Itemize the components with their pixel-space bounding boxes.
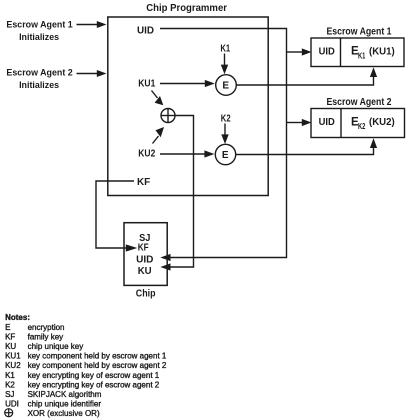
svg-text:UDI: UDI <box>5 399 19 408</box>
svg-text:UID: UID <box>137 26 154 37</box>
svg-text:key component held by escrow a: key component held by escrow agent 2 <box>28 361 167 370</box>
svg-text:Chip: Chip <box>136 289 156 300</box>
svg-text:KU2: KU2 <box>5 361 21 370</box>
svg-text:SJ: SJ <box>5 390 14 399</box>
svg-text:XOR (exclusive OR): XOR (exclusive OR) <box>28 409 100 418</box>
svg-text:E: E <box>222 81 229 92</box>
svg-text:Escrow Agent 2: Escrow Agent 2 <box>327 97 392 108</box>
svg-text:Initializes: Initializes <box>19 80 59 90</box>
svg-text:SKIPJACK algorithm: SKIPJACK algorithm <box>28 390 102 399</box>
svg-text:key encrypting key of escrow a: key encrypting key of escrow agent 2 <box>28 380 160 389</box>
svg-text:Escrow Agent 2: Escrow Agent 2 <box>6 67 72 77</box>
svg-text:KU1: KU1 <box>5 352 21 361</box>
svg-text:K1: K1 <box>5 371 15 380</box>
svg-text:UID: UID <box>136 255 153 266</box>
svg-text:KU1: KU1 <box>138 78 155 89</box>
svg-text:K1: K1 <box>358 52 366 61</box>
svg-text:KF: KF <box>137 177 150 188</box>
svg-text:chip unique identifier: chip unique identifier <box>28 399 102 408</box>
svg-text:Escrow Agent 1: Escrow Agent 1 <box>6 19 72 29</box>
svg-text:K2: K2 <box>5 380 15 389</box>
svg-text:Initializes: Initializes <box>19 32 59 42</box>
svg-text:(KU1): (KU1) <box>369 47 395 58</box>
svg-text:KF: KF <box>5 333 15 342</box>
svg-text:Notes:: Notes: <box>5 313 30 322</box>
svg-text:key component held by escrow a: key component held by escrow agent 1 <box>28 352 167 361</box>
svg-text:family key: family key <box>28 333 64 342</box>
svg-text:KU2: KU2 <box>138 148 155 159</box>
svg-text:KF: KF <box>138 242 149 253</box>
svg-text:(KU2): (KU2) <box>369 117 395 128</box>
svg-text:KU: KU <box>5 342 16 351</box>
svg-text:K2: K2 <box>221 113 231 124</box>
svg-text:encryption: encryption <box>28 323 65 332</box>
svg-text:KU: KU <box>138 266 152 277</box>
svg-text:UID: UID <box>319 47 335 58</box>
svg-text:E: E <box>222 150 229 161</box>
svg-text:chip unique key: chip unique key <box>28 342 84 351</box>
svg-text:key encrypting key of escrow a: key encrypting key of escrow agent 1 <box>28 371 160 380</box>
svg-text:UID: UID <box>319 117 335 128</box>
svg-text:E: E <box>5 323 10 332</box>
svg-text:Escrow Agent 1: Escrow Agent 1 <box>327 27 392 38</box>
svg-text:K1: K1 <box>220 43 230 54</box>
svg-text:K2: K2 <box>358 122 366 131</box>
svg-text:Chip Programmer: Chip Programmer <box>146 3 227 14</box>
